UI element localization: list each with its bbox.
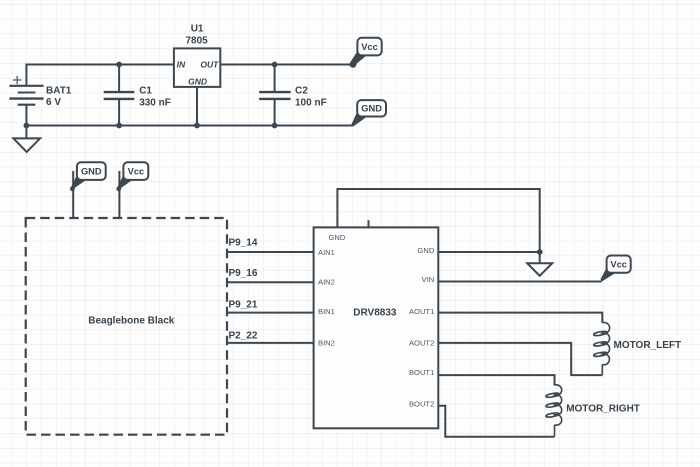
net label GND (beaglebone)	[70, 162, 106, 218]
wire GND pin to junction	[438, 251, 539, 253]
wire BOUT1 to motor right	[438, 375, 554, 385]
svg-text:VIN: VIN	[422, 275, 435, 284]
svg-text:Vcc: Vcc	[610, 259, 627, 269]
regulator U1 box	[174, 48, 220, 87]
svg-text:AOUT2: AOUT2	[409, 338, 434, 347]
capacitor C1	[104, 65, 135, 126]
svg-text:BOUT1: BOUT1	[409, 368, 434, 377]
svg-text:AIN2: AIN2	[318, 277, 335, 286]
svg-text:7805: 7805	[185, 36, 208, 47]
junction GND net	[537, 249, 543, 255]
svg-text:Vcc: Vcc	[361, 42, 378, 52]
wire P9_14 to AIN1	[227, 251, 314, 253]
svg-text:BAT1: BAT1	[46, 85, 72, 96]
svg-text:GND: GND	[417, 246, 434, 255]
svg-text:IN: IN	[177, 60, 186, 70]
svg-text:MOTOR_LEFT: MOTOR_LEFT	[614, 340, 682, 351]
junction C1 bottom	[116, 123, 122, 129]
svg-text:BIN2: BIN2	[318, 338, 335, 347]
wire VIN to Vcc	[438, 281, 601, 283]
svg-text:BIN1: BIN1	[318, 307, 335, 316]
inductor MOTOR_RIGHT	[546, 385, 562, 437]
svg-text:Vcc: Vcc	[128, 166, 145, 176]
svg-text:OUT: OUT	[200, 60, 219, 70]
svg-text:P9_16: P9_16	[229, 268, 258, 279]
wire P9_21 to BIN1	[227, 312, 314, 314]
svg-text:GND: GND	[81, 166, 102, 176]
capacitor C2	[259, 65, 291, 126]
svg-text:MOTOR_RIGHT: MOTOR_RIGHT	[566, 403, 640, 414]
svg-text:GND: GND	[361, 104, 382, 114]
svg-text:Beaglebone Black: Beaglebone Black	[88, 316, 175, 327]
svg-text:P9_21: P9_21	[229, 300, 258, 311]
net label Vcc (VIN)	[601, 256, 631, 282]
svg-text:6 V: 6 V	[46, 97, 61, 108]
junction C1 top	[116, 62, 122, 68]
svg-text:C2: C2	[295, 86, 308, 97]
wire GND loop over top	[337, 189, 539, 252]
net label GND (top)	[352, 100, 387, 127]
svg-text:GND: GND	[188, 77, 207, 87]
svg-text:U1: U1	[191, 24, 204, 35]
wire AOUT2 to motor left bottom	[438, 343, 602, 375]
svg-text:P2_22: P2_22	[229, 330, 258, 341]
svg-text:GND: GND	[329, 233, 346, 242]
junction C2 top	[272, 62, 278, 68]
junction U1 GND bottom	[194, 123, 200, 129]
svg-text:DRV8833: DRV8833	[353, 307, 397, 318]
battery BAT1	[9, 76, 43, 105]
wire battery top to U1 IN	[26, 65, 174, 86]
net label Vcc (beaglebone)	[116, 162, 148, 218]
junction battery bottom	[24, 123, 30, 129]
wire AOUT1 to motor left	[438, 313, 602, 323]
svg-text:P9_14: P9_14	[229, 237, 258, 248]
junction C2 bottom	[272, 123, 278, 129]
wire BOUT2 to motor right bottom	[438, 406, 554, 437]
IC DRV8833 box	[314, 227, 439, 428]
svg-text:AOUT1: AOUT1	[409, 307, 434, 316]
wire P9_16 to AIN2	[227, 281, 314, 283]
module Beaglebone Black (dashed box)	[26, 218, 227, 435]
svg-text:BOUT2: BOUT2	[409, 399, 434, 408]
DRV8833 top GND pin stub	[368, 220, 370, 227]
ground at DRV8833	[527, 252, 552, 276]
svg-text:330 nF: 330 nF	[139, 97, 171, 108]
wire U1 OUT to Vcc node	[220, 64, 353, 66]
ground at battery	[13, 126, 40, 152]
wire U1 GND stub	[196, 87, 198, 126]
svg-text:100 nF: 100 nF	[295, 97, 327, 108]
inductor MOTOR_LEFT	[593, 322, 609, 375]
wire bottom ground rail	[26, 105, 353, 126]
net label Vcc (top)	[350, 38, 382, 68]
svg-text:AIN1: AIN1	[318, 248, 335, 257]
svg-text:C1: C1	[139, 86, 152, 97]
wire P2_22 to BIN2	[227, 342, 314, 344]
